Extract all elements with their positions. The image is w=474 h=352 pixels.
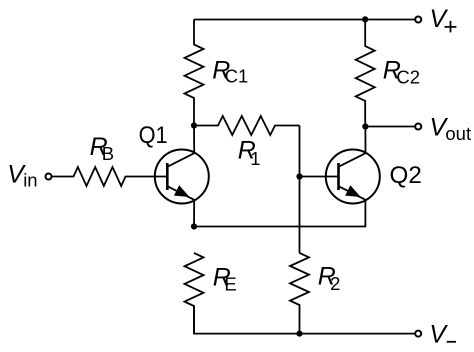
resistor R1 xyxy=(194,116,300,135)
terminal Vout xyxy=(415,124,421,130)
node Q1 emitter xyxy=(191,223,197,229)
transistor Q2 xyxy=(326,127,380,204)
wire Vout xyxy=(365,126,415,128)
resistor R2 xyxy=(290,253,309,334)
wire bottom rail xyxy=(194,306,415,334)
svg-text:C1: C1 xyxy=(225,66,249,87)
wire xyxy=(299,177,301,254)
wire Q2 base xyxy=(300,176,339,178)
node Q2 base xyxy=(296,173,302,179)
svg-text:E: E xyxy=(224,273,236,294)
resistor RE xyxy=(185,253,204,334)
svg-text:B: B xyxy=(102,143,114,164)
wire xyxy=(299,126,301,177)
resistor RB xyxy=(52,167,168,186)
terminal Vminus xyxy=(415,331,421,337)
node top-rail junction xyxy=(362,16,368,22)
node bottom-rail junction xyxy=(296,331,302,337)
wire emitter rail xyxy=(194,200,365,227)
node Q1 collector xyxy=(191,122,197,128)
terminal Vin xyxy=(46,174,52,180)
transistor Q1 xyxy=(155,126,209,227)
svg-text:V: V xyxy=(430,5,449,33)
svg-text:C2: C2 xyxy=(396,66,420,87)
svg-text:in: in xyxy=(23,170,37,191)
terminal V+ xyxy=(415,17,421,23)
svg-text:Q1: Q1 xyxy=(139,121,168,148)
svg-text:2: 2 xyxy=(330,273,340,294)
wire xyxy=(194,19,415,21)
node Vout junction xyxy=(362,123,368,129)
svg-text:Q2: Q2 xyxy=(390,162,422,189)
svg-text:V: V xyxy=(429,321,448,349)
svg-text:1: 1 xyxy=(250,148,260,169)
resistor RC2 xyxy=(356,20,375,127)
resistor RC1 xyxy=(185,20,204,126)
svg-text:out: out xyxy=(445,123,471,144)
